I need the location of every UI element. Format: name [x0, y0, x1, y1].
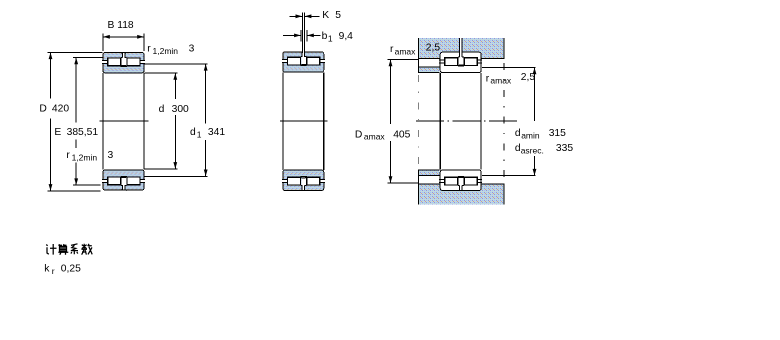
- dimension Damax: dimension line: [390, 59, 392, 183]
- svg-text:r: r: [52, 266, 55, 276]
- svg-text:1,2min: 1,2min: [153, 46, 179, 56]
- housing, lower band: [418, 184, 504, 204]
- dimension d: leader lines: [145, 72, 178, 74]
- svg-text:5: 5: [335, 10, 341, 21]
- svg-text:r: r: [486, 73, 490, 84]
- chinese heading: 计算系数 (drawn strokes): [46, 244, 92, 255]
- left side face line: [282, 73, 284, 170]
- dimension Damax: leader lines: [387, 58, 418, 60]
- dimension da: arrowheads: [533, 68, 537, 75]
- dimension Damax: arrowheads: [389, 60, 393, 67]
- svg-text:2,5: 2,5: [426, 42, 441, 53]
- svg-text:k: k: [44, 264, 50, 275]
- housing, upper band: [418, 38, 504, 58]
- dimension b1: leaders and arrows: [283, 34, 301, 36]
- centre line (dash-dot): [416, 120, 519, 122]
- svg-text:asrec.: asrec.: [521, 146, 544, 156]
- bearing section, upper half (white): [439, 52, 482, 72]
- svg-text:K: K: [322, 10, 329, 21]
- shaft abutment dash-dot line, left: [418, 75, 420, 168]
- svg-text:3: 3: [108, 150, 114, 161]
- right side face line: [143, 73, 145, 169]
- bearing side face lines: [439, 73, 441, 170]
- housing right edge, top and bottom: [503, 38, 505, 59]
- svg-text:1: 1: [197, 130, 202, 140]
- svg-text:amax: amax: [364, 132, 386, 142]
- svg-text:b: b: [322, 31, 328, 42]
- bearing section, upper half: [282, 52, 325, 72]
- svg-text:D: D: [39, 103, 46, 114]
- svg-text:amax: amax: [490, 76, 512, 86]
- svg-text:405: 405: [393, 129, 410, 140]
- bearing section, lower half (white): [439, 170, 482, 190]
- svg-text:r: r: [147, 43, 151, 54]
- dimension D: leader lines: [48, 51, 103, 53]
- svg-text:3: 3: [189, 43, 195, 54]
- right side face line: [323, 73, 325, 170]
- dimension d: dimension line: [174, 73, 176, 169]
- svg-text:r: r: [390, 44, 394, 55]
- dimension E: dimension line: [75, 58, 77, 186]
- svg-text:amax: amax: [395, 46, 417, 56]
- shaft shoulder, upper: [418, 67, 440, 72]
- svg-text:1: 1: [328, 33, 333, 43]
- svg-text:2,5: 2,5: [521, 72, 536, 83]
- dimension E: arrowheads: [74, 58, 78, 65]
- lubrication hole extension tube: [303, 13, 305, 54]
- dimension d1: dimension line: [205, 64, 207, 177]
- da leaders, right: [482, 66, 536, 68]
- dimension K: leaders and arrows: [289, 15, 302, 17]
- lubrication groove dip, bottom: [121, 189, 127, 190]
- svg-text:0,25: 0,25: [61, 264, 81, 275]
- svg-text:341: 341: [208, 127, 225, 138]
- svg-text:B 118: B 118: [108, 20, 134, 31]
- svg-text:315: 315: [549, 128, 566, 139]
- dimension d1: leader lines: [145, 63, 208, 65]
- housing bore edge lines, top: [418, 58, 440, 60]
- svg-text:D: D: [355, 129, 362, 140]
- svg-text:r: r: [66, 150, 70, 161]
- lubrication hole through housing: [460, 38, 462, 54]
- dimension E: leader lines: [73, 57, 102, 59]
- bearing section, upper half: [102, 53, 145, 73]
- svg-text:385,51: 385,51: [67, 127, 99, 138]
- svg-text:335: 335: [556, 143, 573, 154]
- left side face line: [102, 73, 104, 169]
- shaft shoulder, lower: [418, 170, 440, 175]
- shoulder face line, left: [418, 38, 420, 204]
- dimension da: dimension line: [534, 67, 536, 175]
- housing bore edge lines, bottom: [418, 183, 440, 185]
- svg-text:d: d: [515, 128, 521, 139]
- lubrication groove dip, top: [121, 52, 127, 53]
- bearing section, lower half (mirrored): [102, 170, 145, 190]
- dimension D: arrowheads: [49, 53, 53, 60]
- abutment dash-dot line, right: [503, 63, 505, 183]
- svg-text:E: E: [54, 127, 61, 138]
- svg-text:9,4: 9,4: [339, 31, 354, 42]
- svg-text:300: 300: [172, 104, 189, 115]
- dimension D: dimension line: [50, 52, 52, 191]
- dimension B: extension lines: [102, 33, 104, 50]
- centre line: [100, 120, 149, 122]
- dimension d1: arrowheads: [204, 64, 208, 71]
- svg-text:d: d: [190, 127, 196, 138]
- dimension B: dimension line: [103, 36, 144, 38]
- dimension d: arrowheads: [173, 73, 177, 80]
- svg-text:420: 420: [52, 103, 69, 114]
- bearing section, lower half: [282, 170, 325, 190]
- svg-text:d: d: [159, 104, 165, 115]
- dimension B: arrowheads: [103, 35, 110, 39]
- svg-text:amin: amin: [521, 130, 540, 140]
- dimension b1: extension stubs: [300, 30, 302, 42]
- centre line: [280, 120, 327, 122]
- svg-text:1,2min: 1,2min: [72, 152, 98, 162]
